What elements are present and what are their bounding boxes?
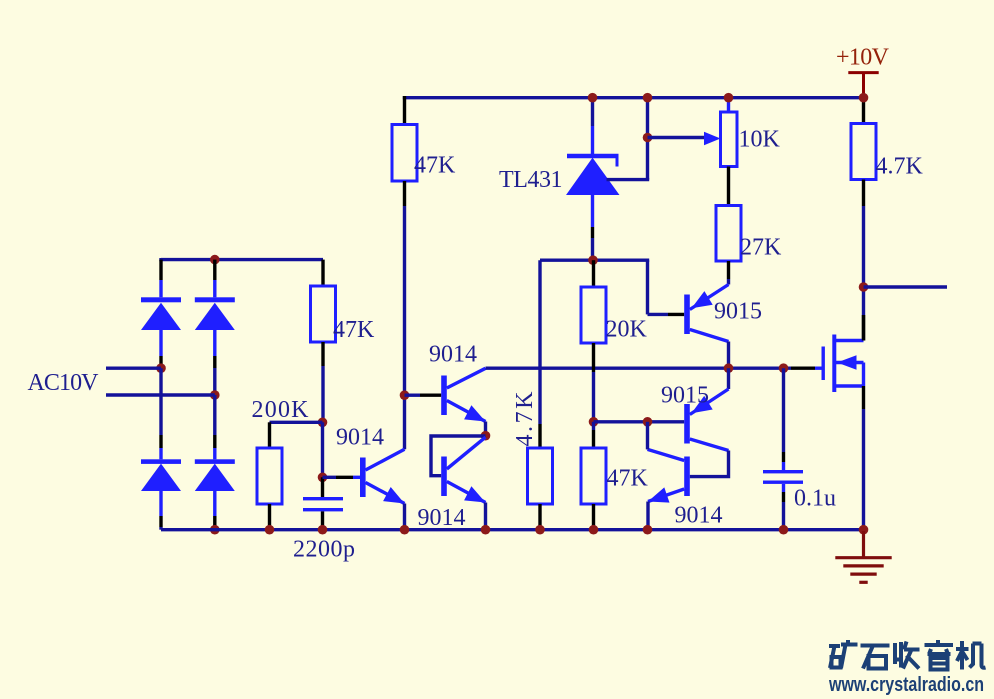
svg-text:9015: 9015 [714, 299, 762, 325]
transistor Q2 9014 mid-top [444, 368, 486, 421]
svg-text:20K: 20K [606, 317, 648, 343]
wire down to R6 top [268, 422, 271, 448]
resistor R2 10K potentiometer [721, 112, 738, 167]
svg-text:4.7K: 4.7K [512, 391, 538, 447]
transistor Q4 9015 upper [687, 285, 729, 342]
diode D3 bottom-left [141, 459, 181, 491]
wire Q4 collector to gate net [727, 342, 730, 369]
wiper arrow into pot [704, 132, 721, 145]
wire right column upper stubs [213, 260, 216, 280]
junction dot AC2 [210, 390, 220, 400]
wire left column upper stubs [159, 260, 162, 280]
wire rail to pot R2 top [727, 96, 730, 112]
junction dot node D [318, 473, 328, 483]
junction dot C2 rail [779, 525, 789, 535]
junction dot node C [318, 418, 328, 428]
wire pot R2 to R3 [727, 167, 730, 206]
wire bottom ground rail [161, 528, 865, 531]
wire C2 bottom to rail [782, 484, 785, 492]
wire gate net horizontal [486, 367, 792, 370]
wire node A to Q1 collector [403, 395, 406, 449]
wire TL431 anode down to node B [591, 195, 594, 228]
wire ref vertical to rail [646, 96, 649, 180]
svg-text:TL431: TL431 [499, 167, 563, 193]
node A dot (404.5,395) [400, 390, 410, 400]
wire R3 bottom to Q4 emitter [727, 261, 730, 279]
wire gate net to Q5 emitter [727, 368, 730, 389]
Q5 emitter arrow PNP [692, 396, 713, 413]
junction dot C1 rail [318, 525, 328, 535]
Q1 emitter arrow [383, 487, 404, 504]
wire D1 anode to AC node [159, 330, 162, 356]
wire output to right [864, 285, 948, 288]
svg-text:9015: 9015 [661, 383, 709, 409]
wire Q3 emitter to rail [484, 503, 487, 530]
junction dot rail-TL431 [588, 93, 598, 103]
wire R7 bottom to rail [538, 504, 541, 530]
junction dot node B [588, 255, 598, 265]
wire bridge top rail [161, 258, 323, 260]
ground symbol [835, 531, 891, 582]
junction dot Q1 rail [400, 525, 410, 535]
junction dot rail right [859, 93, 869, 103]
Q6 emitter arrow [648, 487, 670, 502]
svg-text:9014: 9014 [675, 503, 723, 529]
wire TL431 ref to divider [607, 178, 650, 181]
capacitor C2 0.1u [763, 470, 803, 484]
logo crystalradio text [828, 674, 984, 696]
logo chinese characters [829, 640, 986, 670]
wire node C down to node D [321, 422, 324, 477]
wire AC2 input [106, 393, 215, 396]
resistor R5 47K left-mid [311, 286, 336, 342]
svg-text:4.7K: 4.7K [876, 154, 924, 180]
wire top +10V rail [403, 96, 865, 99]
wire AC1 node to D3 [159, 368, 162, 435]
junction dot node E [481, 431, 491, 441]
diode D4 bottom-right [195, 459, 235, 491]
svg-text:2200p: 2200p [293, 537, 355, 563]
wire AC1 input [106, 367, 161, 370]
wire Q2 emitter down to node E [484, 422, 487, 436]
svg-text:+10V: +10V [836, 45, 890, 71]
junction dot node G [643, 417, 653, 427]
junction dot R9 rail [589, 525, 599, 535]
junction dot gate-C2 [779, 363, 789, 373]
wire node D to Q1 base [323, 476, 337, 479]
svg-text:www.crystalradio.cn: www.crystalradio.cn [828, 674, 984, 696]
resistor R4 4.7K right [851, 124, 876, 180]
wire Q4 base horizontal [648, 313, 669, 316]
wire node E loop to Q3 base [431, 436, 486, 476]
resistor R1 47K top-left [392, 125, 417, 182]
resistor R8 20K [581, 287, 606, 343]
wire Q6 collector up to node G [646, 422, 649, 450]
resistor R6 200K [257, 448, 282, 504]
svg-text:9014: 9014 [429, 342, 477, 368]
Q4 emitter arrow PNP [692, 291, 713, 308]
junction dot output node [859, 282, 869, 292]
wire AC2 node to D4 [213, 395, 216, 435]
Q3 emitter arrow [464, 486, 485, 502]
junction dot Q3 rail [481, 525, 491, 535]
junction dot source-ground [859, 525, 869, 535]
wire D3 anode to bottom rail [159, 491, 162, 516]
transistor Q1 9014 left [363, 449, 405, 503]
Q7 body arrow [837, 355, 857, 369]
transistor Q7 MOSFET [823, 335, 863, 393]
svg-text:9014: 9014 [418, 505, 466, 531]
wire gate node down to C2 [782, 368, 785, 452]
wire node A to Q2 base [405, 394, 421, 397]
junction dot R7 rail [535, 525, 545, 535]
transistor Q5 9015 lower [687, 389, 729, 451]
svg-text:27K: 27K [740, 235, 782, 261]
junction dot bridge top [210, 255, 220, 265]
svg-text:200K: 200K [252, 397, 310, 423]
svg-text:0.1u: 0.1u [794, 486, 836, 512]
junction dot bridge bottom [210, 525, 220, 535]
wire R8 bottom to node F [592, 343, 595, 372]
resistor R7 4.7K mid [528, 448, 553, 504]
wire R4 bottom to MOSFET drain [862, 180, 865, 207]
wire Q6 emitter to rail [646, 502, 649, 530]
svg-text:9014: 9014 [336, 425, 384, 451]
wire rail to R4 top [862, 96, 865, 124]
wire rail to TL431 cathode [591, 96, 594, 126]
wire wiper to pot R2 [648, 136, 706, 139]
wire node F to Q5 base [594, 420, 685, 423]
diode D2 top-right [195, 297, 235, 330]
resistor R3 27K [716, 206, 741, 262]
transistor Q6 9014 bottom-right mirrored [648, 449, 688, 501]
junction dot gate-Q4 [724, 363, 734, 373]
transistor Q3 9014 mid-bottom [444, 437, 486, 502]
wire node B corner down to Q4 base [646, 260, 649, 314]
junction dot R6 rail [265, 525, 275, 535]
wire Q5 collector to Q6 base [690, 451, 729, 477]
power +10V symbol [848, 73, 878, 97]
svg-text:47K: 47K [414, 153, 456, 179]
Q2 emitter arrow [464, 405, 485, 421]
wire D2 anode to AC2 node [213, 330, 216, 356]
wire R9 bottom to rail [592, 504, 595, 530]
wire node D to C1 top plate [321, 477, 324, 497]
svg-text:10K: 10K [739, 127, 781, 153]
wire node B down to R7 4.7K mid [538, 260, 541, 424]
wire MOSFET source down to ground rail [862, 386, 865, 409]
diode D1 top-left [141, 297, 181, 330]
junction dot node F [589, 417, 599, 427]
junction dot AC1 [156, 363, 166, 373]
junction dot rail-pot [724, 93, 734, 103]
wire R6 bottom to rail [268, 504, 271, 530]
junction dot rail-ref [643, 93, 653, 103]
wire bridge rail to R5 top [321, 260, 324, 286]
wire C1 bottom plate to rail [321, 511, 324, 529]
wire node B horizontal [540, 259, 649, 262]
wire D4 anode to bottom rail [213, 491, 216, 516]
resistor R9 47K bottom [581, 448, 606, 504]
wire node B to R8 20K top [592, 260, 595, 287]
wire R5 bottom to node C [321, 342, 324, 366]
svg-text:AC10V: AC10V [28, 370, 100, 396]
wire MOSFET drain up [862, 315, 865, 341]
junction dot Q6 rail [643, 525, 653, 535]
op-amp U1 TL431 shunt regulator [567, 156, 619, 195]
svg-text:47K: 47K [333, 317, 375, 343]
wire Q1 emitter to rail [403, 504, 406, 530]
wire node F to R9 47K bottom [592, 422, 595, 430]
svg-text:47K: 47K [607, 466, 649, 492]
wire node C to R6 [270, 421, 323, 424]
capacitor C1 2200p [303, 497, 343, 511]
junction dot ref-wiper [643, 133, 653, 143]
wire rail to R1 top [403, 96, 406, 125]
wire R1 bottom to node A [403, 181, 406, 206]
